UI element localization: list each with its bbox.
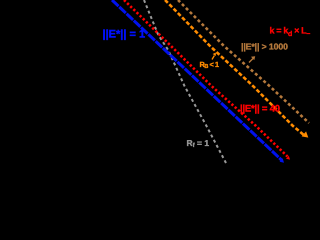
svg-text:||E*|| = 40: ||E*|| = 40	[240, 104, 280, 115]
svg-text:Rf = 1: Rf = 1	[187, 138, 210, 149]
svg-text:RB < 1: RB < 1	[200, 60, 219, 70]
svg-text:||E*|| > 1000: ||E*|| > 1000	[241, 42, 288, 52]
svg-text:||E*|| = 1: ||E*|| = 1	[103, 29, 146, 41]
